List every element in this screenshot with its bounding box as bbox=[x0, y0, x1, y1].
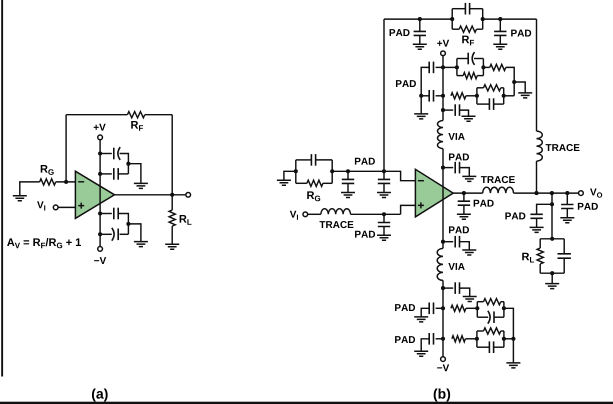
terminal +V (b) bbox=[441, 51, 446, 56]
junction +V rail branch2 (b) bbox=[441, 94, 445, 98]
ground below RL (a) bbox=[165, 244, 179, 249]
capacitor C4 electrolytic -V (a) bbox=[112, 228, 114, 241]
capacitor ferrite model1 (b) bbox=[467, 53, 469, 65]
ground -V network (b) bbox=[506, 363, 520, 368]
ground below opamp supply (b) bbox=[462, 250, 476, 255]
resistor RL (b) bbox=[537, 248, 543, 264]
wire block2p to common vertical (b) bbox=[504, 338, 514, 340]
ground PAD output (b) bbox=[457, 214, 471, 219]
junction RF block left (b) bbox=[450, 17, 454, 21]
junction -V common node (b) bbox=[511, 337, 515, 341]
resistor ferrite model1p (b) bbox=[484, 299, 501, 305]
wire -V branch1 cap to ground (b) bbox=[421, 308, 429, 317]
terminal -V (b) bbox=[441, 357, 446, 362]
junction -V caps common (a) bbox=[126, 222, 130, 226]
op-amp U1 (figure a) bbox=[75, 171, 114, 218]
ferrite block2 frame (b) bbox=[476, 88, 478, 104]
wire block2p cap branch (b) bbox=[477, 346, 489, 348]
wire to left cap branch1 (b) bbox=[436, 66, 443, 68]
junction +V caps common (a) bbox=[126, 162, 130, 166]
label VI (a) bbox=[37, 201, 45, 210]
terminal +V (a) bbox=[98, 135, 103, 140]
wire feedback top right (a) bbox=[145, 114, 172, 116]
wire block1p to common vertical (b) bbox=[504, 308, 514, 362]
resistor ferrite model2 (b) bbox=[484, 85, 501, 91]
label (b) bbox=[434, 388, 450, 401]
wire C3 right side (a) bbox=[118, 214, 128, 235]
ground -V PAD upper (b) bbox=[414, 317, 428, 322]
wire branch1 to common node (b) bbox=[506, 67, 514, 95]
label TRACE right vertical (b) bbox=[546, 144, 580, 151]
terminal output (a) bbox=[186, 192, 191, 197]
ground PAD non-inverting (b) bbox=[377, 235, 391, 240]
label VO (b) bbox=[590, 189, 602, 198]
label PAD output (b) bbox=[474, 200, 494, 207]
capacitor PAD above opamp (b) bbox=[454, 162, 456, 174]
wire RG cap branch right (b) bbox=[316, 159, 333, 161]
junction pad node C (b) bbox=[382, 212, 386, 216]
junction output node (a) bbox=[170, 193, 174, 197]
junction feedback takeoff (b) bbox=[534, 191, 538, 195]
inductor TRACE input (b) bbox=[321, 209, 351, 215]
op-amp U2 (figure b) bbox=[415, 169, 453, 217]
junction pad node B (b) bbox=[382, 169, 386, 173]
wire feedback top right segment (b) bbox=[483, 18, 537, 20]
wire -V caps to ground (a) bbox=[128, 224, 141, 242]
ground below VIA bottom (b) bbox=[463, 297, 477, 302]
wire -V branch2 cap to ground (b) bbox=[421, 339, 429, 351]
label RL (b) bbox=[522, 253, 534, 263]
wire to left cap -V branch1 (b) bbox=[436, 307, 443, 309]
junction load pad tap (b) bbox=[550, 202, 554, 206]
junction RG block left (b) bbox=[294, 169, 298, 173]
wire block1 resistor stubs (b) bbox=[457, 75, 463, 77]
capacitor pad above VIA (b) bbox=[454, 104, 456, 116]
wire load pad cap ground (b) bbox=[536, 218, 538, 227]
label RF (a) bbox=[131, 121, 143, 131]
wire branch2 resistor to block2 (b) bbox=[466, 95, 477, 97]
terminal -V (a) bbox=[98, 247, 103, 252]
junction output pad (b) bbox=[462, 191, 466, 195]
capacitor PAD non-inverting (b) bbox=[378, 223, 390, 227]
wire feedback top (a) bbox=[66, 114, 127, 116]
wire common node ground tap (b) bbox=[514, 82, 525, 93]
wire VO pad cap ground (b) bbox=[566, 208, 568, 217]
wire pad cap A (b) bbox=[347, 171, 349, 179]
wire trace to pad node C (b) bbox=[351, 213, 401, 215]
wire jog to inverting input (b) bbox=[384, 171, 415, 180]
capacitor parasitic across RG (b) bbox=[310, 154, 312, 166]
label RG (a) bbox=[41, 165, 54, 175]
wire RG resistor stubs (b) bbox=[296, 182, 307, 184]
wire +V rail upper (b) bbox=[442, 56, 444, 121]
label PAD below opamp (b) bbox=[449, 226, 469, 233]
junction ferrite block2 right (b) bbox=[502, 94, 506, 98]
junction -V rail cap4 tap (a) bbox=[98, 232, 102, 236]
junction pad node A (b) bbox=[346, 169, 350, 173]
wire -V rail lower (b) bbox=[442, 280, 444, 356]
resistor -V branch2 series (b) bbox=[452, 336, 465, 342]
ground -V PAD lower (b) bbox=[414, 351, 428, 356]
capacitor PAD below opamp (b) bbox=[454, 236, 456, 248]
wire to load pad cap (b) bbox=[537, 204, 552, 214]
wire to left PAD cap top (b) bbox=[419, 19, 421, 31]
label +V (b) bbox=[437, 40, 449, 47]
wire jog to non-inverting input (b) bbox=[401, 205, 416, 214]
label VI (b) bbox=[290, 211, 298, 220]
resistor RG (a) bbox=[40, 179, 56, 185]
wire RG cap branch (b) bbox=[296, 159, 312, 161]
capacitor C3 ceramic -V (a) bbox=[113, 208, 115, 220]
wire branch1 to ferrite block (b) bbox=[443, 66, 457, 68]
RL block bottom rail (b) bbox=[540, 272, 564, 274]
label RG (b) bbox=[307, 191, 320, 201]
junction -V rail branch2 (b) bbox=[441, 337, 445, 341]
wire to decoupling cap C2 (a) bbox=[100, 173, 112, 175]
RL block right vertical lower (b) bbox=[563, 258, 565, 273]
label TRACE output (b) bbox=[481, 176, 515, 183]
wire block2 to common node (b) bbox=[504, 95, 515, 97]
ground at RG input (a) bbox=[13, 196, 27, 201]
wire to grounded cap above VIA (b) bbox=[443, 109, 453, 111]
U1 non-inverting input plus sign bbox=[78, 203, 84, 209]
wire C1 to join vertical (a) bbox=[120, 154, 129, 174]
wire block1 cap branch right (b) bbox=[474, 58, 483, 60]
junction ferrite block2p right (b) bbox=[502, 337, 506, 341]
junction ferrite block1p left (b) bbox=[475, 306, 479, 310]
label PAD top right (b) bbox=[511, 30, 531, 37]
wire block2p resistor stubs (b) bbox=[477, 330, 484, 332]
ground +V decoupling (a) bbox=[134, 183, 148, 188]
ground RG input (b) bbox=[277, 180, 291, 185]
page left border line bbox=[1, 0, 3, 377]
wire C4 right side (a) bbox=[120, 233, 129, 235]
label gain formula Av equals Rf over Rg plus 1 bbox=[7, 238, 81, 248]
ferrite block1 frame (b) bbox=[456, 59, 458, 76]
wire cap to ground above VIA (b) bbox=[460, 110, 469, 116]
label -V (b) bbox=[437, 364, 449, 371]
wire block1p cap branch (b) bbox=[477, 316, 488, 318]
RL block left vertical lower (b) bbox=[539, 264, 541, 273]
label RL (a) bbox=[180, 215, 192, 225]
capacitor PAD output (b) bbox=[458, 201, 470, 205]
label PAD inverting (b) bbox=[355, 158, 375, 165]
junction supply PAD below opamp (b) bbox=[441, 240, 445, 244]
wire feedback left vertical (a) bbox=[65, 115, 67, 182]
capacitor C1 electrolytic +V (a) bbox=[113, 148, 115, 160]
resistor branch2 series (b) bbox=[451, 93, 466, 99]
ground +V network (b) bbox=[518, 93, 532, 98]
RF parallel block frame left (b) bbox=[451, 9, 453, 30]
RL block top rail (b) bbox=[540, 238, 564, 240]
capacitor PAD top right (b) bbox=[494, 31, 506, 35]
capacitor ferrite model1p (b) bbox=[488, 311, 490, 324]
U2 non-inverting input plus sign bbox=[418, 202, 424, 208]
capacitor ferrite model2p (b) bbox=[488, 341, 490, 353]
capacitor PAD inverting B (b) bbox=[378, 179, 390, 183]
RF parallel block frame right (b) bbox=[482, 9, 484, 30]
capacitor C2 ceramic +V (a) bbox=[113, 168, 115, 180]
wire to left cap -V branch2 (b) bbox=[436, 338, 443, 340]
wire pad cap B (b) bbox=[383, 171, 385, 179]
resistor series branch1 (b) bbox=[490, 64, 506, 70]
label RF (b) bbox=[462, 36, 474, 46]
capacitor PAD plane +V upper (b) bbox=[428, 62, 430, 74]
junction VO pad node (b) bbox=[565, 191, 569, 195]
label PAD -V lower (b) bbox=[395, 336, 415, 343]
capacitor parasitic across RF (b) bbox=[464, 3, 466, 15]
inductor VIA -V (b) bbox=[437, 248, 443, 280]
wire pad cap C ground (b) bbox=[383, 226, 385, 235]
label PAD -V upper (b) bbox=[395, 304, 415, 311]
junction left caps vertical (b) bbox=[419, 94, 423, 98]
wire feedback left vertical (b) bbox=[383, 19, 385, 171]
wire output from opamp (b) bbox=[453, 192, 483, 194]
terminal VO (b) bbox=[579, 191, 584, 196]
label TRACE input (b) bbox=[319, 221, 353, 228]
ground PAD at VO (b) bbox=[560, 218, 574, 223]
junction top wire left PAD tap bbox=[418, 17, 422, 21]
wire RF cap branch left (b) bbox=[452, 8, 465, 10]
capacitor PAD top left (b) bbox=[414, 31, 426, 35]
wire pad cap C (b) bbox=[383, 214, 385, 222]
ground below RL (b) bbox=[545, 284, 559, 289]
label PAD +V left (b) bbox=[396, 80, 416, 87]
wire block1 cap branch (b) bbox=[457, 58, 468, 60]
junction RF block right (b) bbox=[481, 17, 485, 21]
wire to PAD cap below opamp (b) bbox=[443, 241, 453, 243]
capacitor PAD at load (b) bbox=[530, 214, 542, 218]
junction +V rail cap1 tap (a) bbox=[98, 151, 102, 155]
wire RG block left to ground (b) bbox=[284, 171, 296, 180]
label +V (a) bbox=[94, 124, 106, 131]
wire to left cap branch2 (b) bbox=[436, 95, 443, 97]
ground PAD at load (b) bbox=[530, 227, 544, 232]
ground +V PAD caps (b) bbox=[414, 114, 428, 119]
resistor RL (a) bbox=[169, 210, 175, 226]
junction top wire right PAD tap bbox=[498, 17, 502, 21]
capacitor PAD plane -V lower (b) bbox=[428, 333, 430, 345]
label (a) bbox=[92, 388, 108, 401]
junction ferrite block1 left (b) bbox=[455, 65, 459, 69]
ground PAD inverting B (b) bbox=[377, 193, 391, 198]
U1 inverting input minus sign bbox=[78, 181, 84, 183]
wire block2 resistor stubs (b) bbox=[477, 87, 484, 89]
wire C2 right side (a) bbox=[118, 173, 128, 175]
RG block frame (b) bbox=[295, 160, 297, 183]
junction supply PAD above opamp (b) bbox=[441, 166, 445, 170]
junction ferrite block1p right (b) bbox=[502, 306, 506, 310]
wire output to RL (a) bbox=[171, 195, 173, 210]
ground above opamp supply (b) bbox=[462, 176, 476, 181]
wire to PAD cap above opamp (b) bbox=[443, 167, 453, 169]
wire feedback right vertical upper (b) bbox=[536, 19, 538, 131]
ground PAD inverting A (b) bbox=[341, 193, 355, 198]
label -V (a) bbox=[94, 257, 106, 264]
wire RL to ground (b) bbox=[551, 273, 553, 283]
wire block1p cap branch right (b) bbox=[494, 316, 504, 318]
RL block left vertical upper (b) bbox=[539, 239, 541, 248]
resistor ferrite model1 (b) bbox=[463, 73, 477, 79]
label PAD top left (b) bbox=[390, 29, 410, 36]
junction RL block top (b) bbox=[550, 237, 554, 241]
resistor RF (b) bbox=[459, 26, 476, 32]
junction ferrite block1 right (b) bbox=[481, 65, 485, 69]
wire RF resistor stubs (b) bbox=[452, 28, 459, 30]
junction +V rail cap2 tap (a) bbox=[98, 172, 102, 176]
wire block2 cap branch right (b) bbox=[494, 103, 504, 105]
junction +V rail branch1 (b) bbox=[441, 65, 445, 69]
wire PAD cap to ground top right (b) bbox=[499, 35, 501, 44]
wire to decoupling cap C4 (a) bbox=[100, 233, 112, 235]
wire +V caps to ground (a) bbox=[128, 164, 141, 184]
junction +V common node (b) bbox=[512, 80, 516, 84]
ground above VIA top (b) bbox=[462, 116, 476, 121]
junction -V cap below VIA (b) bbox=[441, 286, 445, 290]
junction ferrite block2p left (b) bbox=[475, 337, 479, 341]
label VIA top (b) bbox=[448, 133, 464, 140]
wire to grounded cap below VIA (b) bbox=[443, 287, 453, 289]
wire output pad cap ground (b) bbox=[463, 205, 465, 214]
capacitor ferrite model2 (b) bbox=[488, 98, 490, 110]
inductor VIA +V (b) bbox=[438, 121, 443, 149]
ferrite block1p frame (b) bbox=[476, 302, 478, 318]
wire feedback right vertical lower (b) bbox=[536, 161, 538, 193]
wire RG to inverting input (a) bbox=[56, 181, 76, 183]
terminal VI input (b) bbox=[303, 212, 308, 217]
wire cap to ground above opamp (b) bbox=[460, 168, 470, 177]
wire VI to trace (b) bbox=[308, 213, 321, 215]
wire block2 cap branch (b) bbox=[477, 103, 489, 105]
wire left cap branch2 join (b) bbox=[421, 95, 429, 97]
wire VI to non-inverting input (a) bbox=[58, 206, 75, 208]
inductor TRACE output (b) bbox=[483, 187, 514, 193]
wire branch1p resistor to block (b) bbox=[466, 307, 477, 309]
wire load node down (b) bbox=[551, 193, 553, 239]
wire output to VO (b) bbox=[514, 192, 579, 194]
ground top left PAD (b) bbox=[413, 44, 427, 49]
label PAD non-inverting (b) bbox=[355, 231, 375, 238]
junction +V rail via tap (b) bbox=[441, 108, 445, 112]
ground -V decoupling (a) bbox=[134, 242, 148, 247]
wire block1p resistor stubs (b) bbox=[477, 301, 483, 303]
label PAD above opamp (b) bbox=[449, 154, 469, 161]
wire cap to ground below VIA (b) bbox=[460, 288, 470, 296]
ground top right PAD (b) bbox=[493, 44, 507, 49]
wire cap to ground below opamp (b) bbox=[460, 242, 470, 250]
page bottom border line bbox=[0, 402, 613, 404]
wire block2p cap branch right (b) bbox=[494, 346, 504, 348]
junction load node (b) bbox=[550, 191, 554, 195]
resistor ferrite model2p (b) bbox=[484, 328, 501, 334]
resistor RG (b) bbox=[307, 180, 323, 186]
junction inverting input node (a) bbox=[64, 180, 68, 184]
wire left caps common vertical (b) bbox=[421, 67, 429, 114]
capacitor PAD at VO (b) bbox=[561, 205, 573, 209]
wire feedback right vertical (a) bbox=[171, 115, 173, 195]
wire to decoupling cap C3 (a) bbox=[100, 213, 112, 215]
label VIA bottom (b) bbox=[448, 263, 464, 270]
wire to decoupling cap C1 (a) bbox=[100, 153, 112, 155]
capacitor pad below VIA (b) bbox=[454, 282, 456, 294]
junction -V rail cap3 tap (a) bbox=[98, 211, 102, 215]
ferrite block2p frame (b) bbox=[476, 331, 478, 347]
wire RG to pad node A (b) bbox=[332, 170, 384, 172]
wire output pad cap (b) bbox=[463, 193, 465, 201]
wire PAD cap to ground top left (b) bbox=[419, 35, 421, 44]
capacitor PAD plane +V lower (b) bbox=[428, 90, 430, 102]
wire to right PAD cap top (b) bbox=[499, 19, 501, 31]
capacitor PAD inverting A (b) bbox=[342, 179, 354, 183]
U2 inverting input minus sign bbox=[418, 180, 424, 182]
wire block1 to series resistor (b) bbox=[483, 66, 489, 68]
wire pad cap A ground (b) bbox=[347, 183, 349, 192]
resistor RF (a) bbox=[127, 112, 144, 118]
wire VO pad cap (b) bbox=[566, 193, 568, 205]
junction -V rail branch1 (b) bbox=[441, 306, 445, 310]
wire VIA to opamp supply (b) bbox=[442, 149, 444, 249]
label PAD at load (b) bbox=[505, 213, 525, 220]
wire output (a) bbox=[115, 194, 186, 196]
wire RG left to ground (a) bbox=[20, 182, 40, 196]
wire RF cap branch right (b) bbox=[470, 8, 483, 10]
wire RL to ground (a) bbox=[171, 226, 173, 244]
wire feedback top (b) bbox=[384, 18, 452, 20]
wire pad cap B ground (b) bbox=[383, 183, 385, 192]
inductor TRACE feedback right (b) bbox=[537, 131, 543, 161]
junction ferrite block2 left (b) bbox=[475, 94, 479, 98]
wire supply rail +V to -V (a) bbox=[99, 140, 101, 247]
junction RG block right (b) bbox=[330, 169, 334, 173]
RL block right vertical (b) bbox=[563, 239, 565, 254]
label PAD at VO (b) bbox=[578, 203, 598, 210]
resistor -V branch1 series (b) bbox=[451, 305, 466, 311]
capacitor PAD plane -V upper (b) bbox=[428, 303, 430, 315]
capacitor parasitic across RL (b) bbox=[558, 254, 571, 258]
wire branch2p resistor to block (b) bbox=[465, 338, 477, 340]
junction RL block bottom (b) bbox=[550, 271, 554, 275]
terminal VI input (a) bbox=[53, 205, 58, 210]
